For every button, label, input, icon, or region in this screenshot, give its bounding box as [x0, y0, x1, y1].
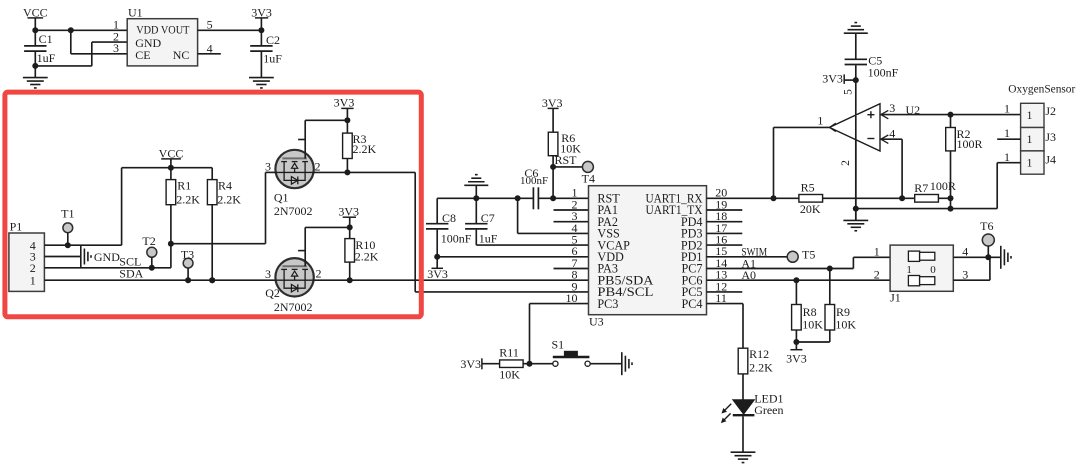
svg-text:3V3: 3V3 — [338, 205, 359, 219]
svg-text:T3: T3 — [181, 247, 194, 261]
svg-text:2.2K: 2.2K — [355, 250, 379, 264]
svg-text:RST: RST — [555, 153, 578, 167]
svg-text:2N7002: 2N7002 — [274, 204, 313, 218]
svg-text:3: 3 — [265, 267, 271, 281]
svg-text:T6: T6 — [980, 219, 993, 233]
svg-text:U1: U1 — [128, 5, 143, 19]
svg-text:J2: J2 — [1045, 104, 1056, 118]
svg-text:2.2K: 2.2K — [176, 192, 200, 206]
svg-text:P1: P1 — [10, 220, 23, 234]
svg-text:T1: T1 — [61, 206, 74, 220]
svg-text:100R: 100R — [957, 137, 983, 151]
svg-text:1uF: 1uF — [479, 231, 498, 245]
svg-text:2.2K: 2.2K — [749, 361, 773, 375]
svg-text:2N7002: 2N7002 — [274, 300, 313, 314]
svg-text:R7: R7 — [914, 181, 928, 195]
svg-text:C7: C7 — [481, 211, 495, 225]
svg-text:PC3: PC3 — [597, 297, 618, 311]
svg-text:5: 5 — [843, 89, 855, 95]
svg-text:3: 3 — [962, 267, 968, 281]
svg-text:Green: Green — [754, 403, 783, 417]
svg-text:A0: A0 — [741, 268, 756, 282]
svg-text:3V3: 3V3 — [822, 71, 843, 85]
svg-text:R4: R4 — [218, 179, 232, 193]
svg-text:1: 1 — [874, 244, 880, 258]
svg-text:100nF: 100nF — [520, 175, 548, 187]
svg-text:U2: U2 — [906, 103, 921, 117]
svg-text:Q1: Q1 — [274, 191, 289, 205]
svg-text:2: 2 — [840, 160, 852, 166]
svg-text:2.2K: 2.2K — [217, 192, 241, 206]
svg-text:1: 1 — [817, 114, 823, 128]
svg-text:J3: J3 — [1045, 130, 1056, 144]
svg-text:Q2: Q2 — [265, 286, 280, 300]
svg-text:J1: J1 — [890, 291, 901, 305]
svg-text:1: 1 — [1004, 150, 1010, 164]
svg-text:4: 4 — [889, 127, 895, 141]
svg-text:R12: R12 — [749, 347, 769, 361]
svg-text:2: 2 — [315, 159, 321, 173]
svg-text:3: 3 — [265, 159, 271, 173]
svg-text:1uF: 1uF — [263, 52, 282, 66]
svg-text:2.2K: 2.2K — [353, 142, 377, 156]
svg-text:T2: T2 — [142, 234, 155, 248]
svg-text:10K: 10K — [802, 317, 823, 331]
svg-text:1uF: 1uF — [37, 51, 56, 65]
svg-text:2: 2 — [316, 267, 322, 281]
svg-text:0: 0 — [930, 264, 936, 276]
svg-text:S1: S1 — [552, 338, 565, 352]
svg-text:R1: R1 — [177, 179, 191, 193]
svg-text:T4: T4 — [582, 171, 595, 185]
svg-text:J4: J4 — [1045, 152, 1056, 166]
svg-text:1: 1 — [1027, 155, 1033, 169]
svg-text:20K: 20K — [800, 202, 821, 216]
svg-text:100R: 100R — [930, 179, 956, 193]
svg-text:3V3: 3V3 — [427, 267, 448, 281]
svg-text:C8: C8 — [442, 211, 456, 225]
svg-text:100nF: 100nF — [441, 231, 472, 245]
svg-text:NC: NC — [173, 48, 190, 62]
svg-text:VDD VOUT: VDD VOUT — [136, 23, 190, 37]
svg-text:2: 2 — [874, 267, 880, 281]
svg-text:1: 1 — [906, 264, 912, 276]
svg-text:100nF: 100nF — [868, 66, 899, 80]
svg-text:1: 1 — [1004, 101, 1010, 115]
svg-text:T5: T5 — [802, 247, 815, 261]
svg-text:CE: CE — [135, 48, 150, 62]
svg-text:C2: C2 — [266, 33, 280, 47]
svg-text:SDA: SDA — [119, 266, 143, 280]
svg-text:10K: 10K — [835, 317, 856, 331]
svg-text:4: 4 — [962, 244, 968, 258]
svg-text:PC4: PC4 — [681, 297, 702, 311]
svg-text:1: 1 — [1027, 108, 1033, 122]
svg-text:1: 1 — [30, 273, 36, 287]
svg-text:3V3: 3V3 — [334, 96, 355, 110]
svg-text:3: 3 — [113, 41, 119, 55]
svg-text:C1: C1 — [39, 32, 53, 46]
svg-text:1: 1 — [1027, 132, 1033, 146]
svg-text:3V3: 3V3 — [786, 352, 807, 366]
svg-text:R5: R5 — [801, 181, 815, 195]
svg-text:OxygenSensor: OxygenSensor — [1008, 82, 1075, 96]
svg-text:10K: 10K — [499, 368, 520, 382]
svg-text:3: 3 — [889, 101, 895, 115]
svg-text:U3: U3 — [589, 314, 604, 328]
svg-text:10: 10 — [566, 291, 578, 305]
svg-text:1: 1 — [1004, 126, 1010, 140]
svg-text:GND: GND — [94, 250, 120, 264]
svg-text:R11: R11 — [499, 345, 519, 359]
svg-text:3V3: 3V3 — [460, 357, 481, 371]
